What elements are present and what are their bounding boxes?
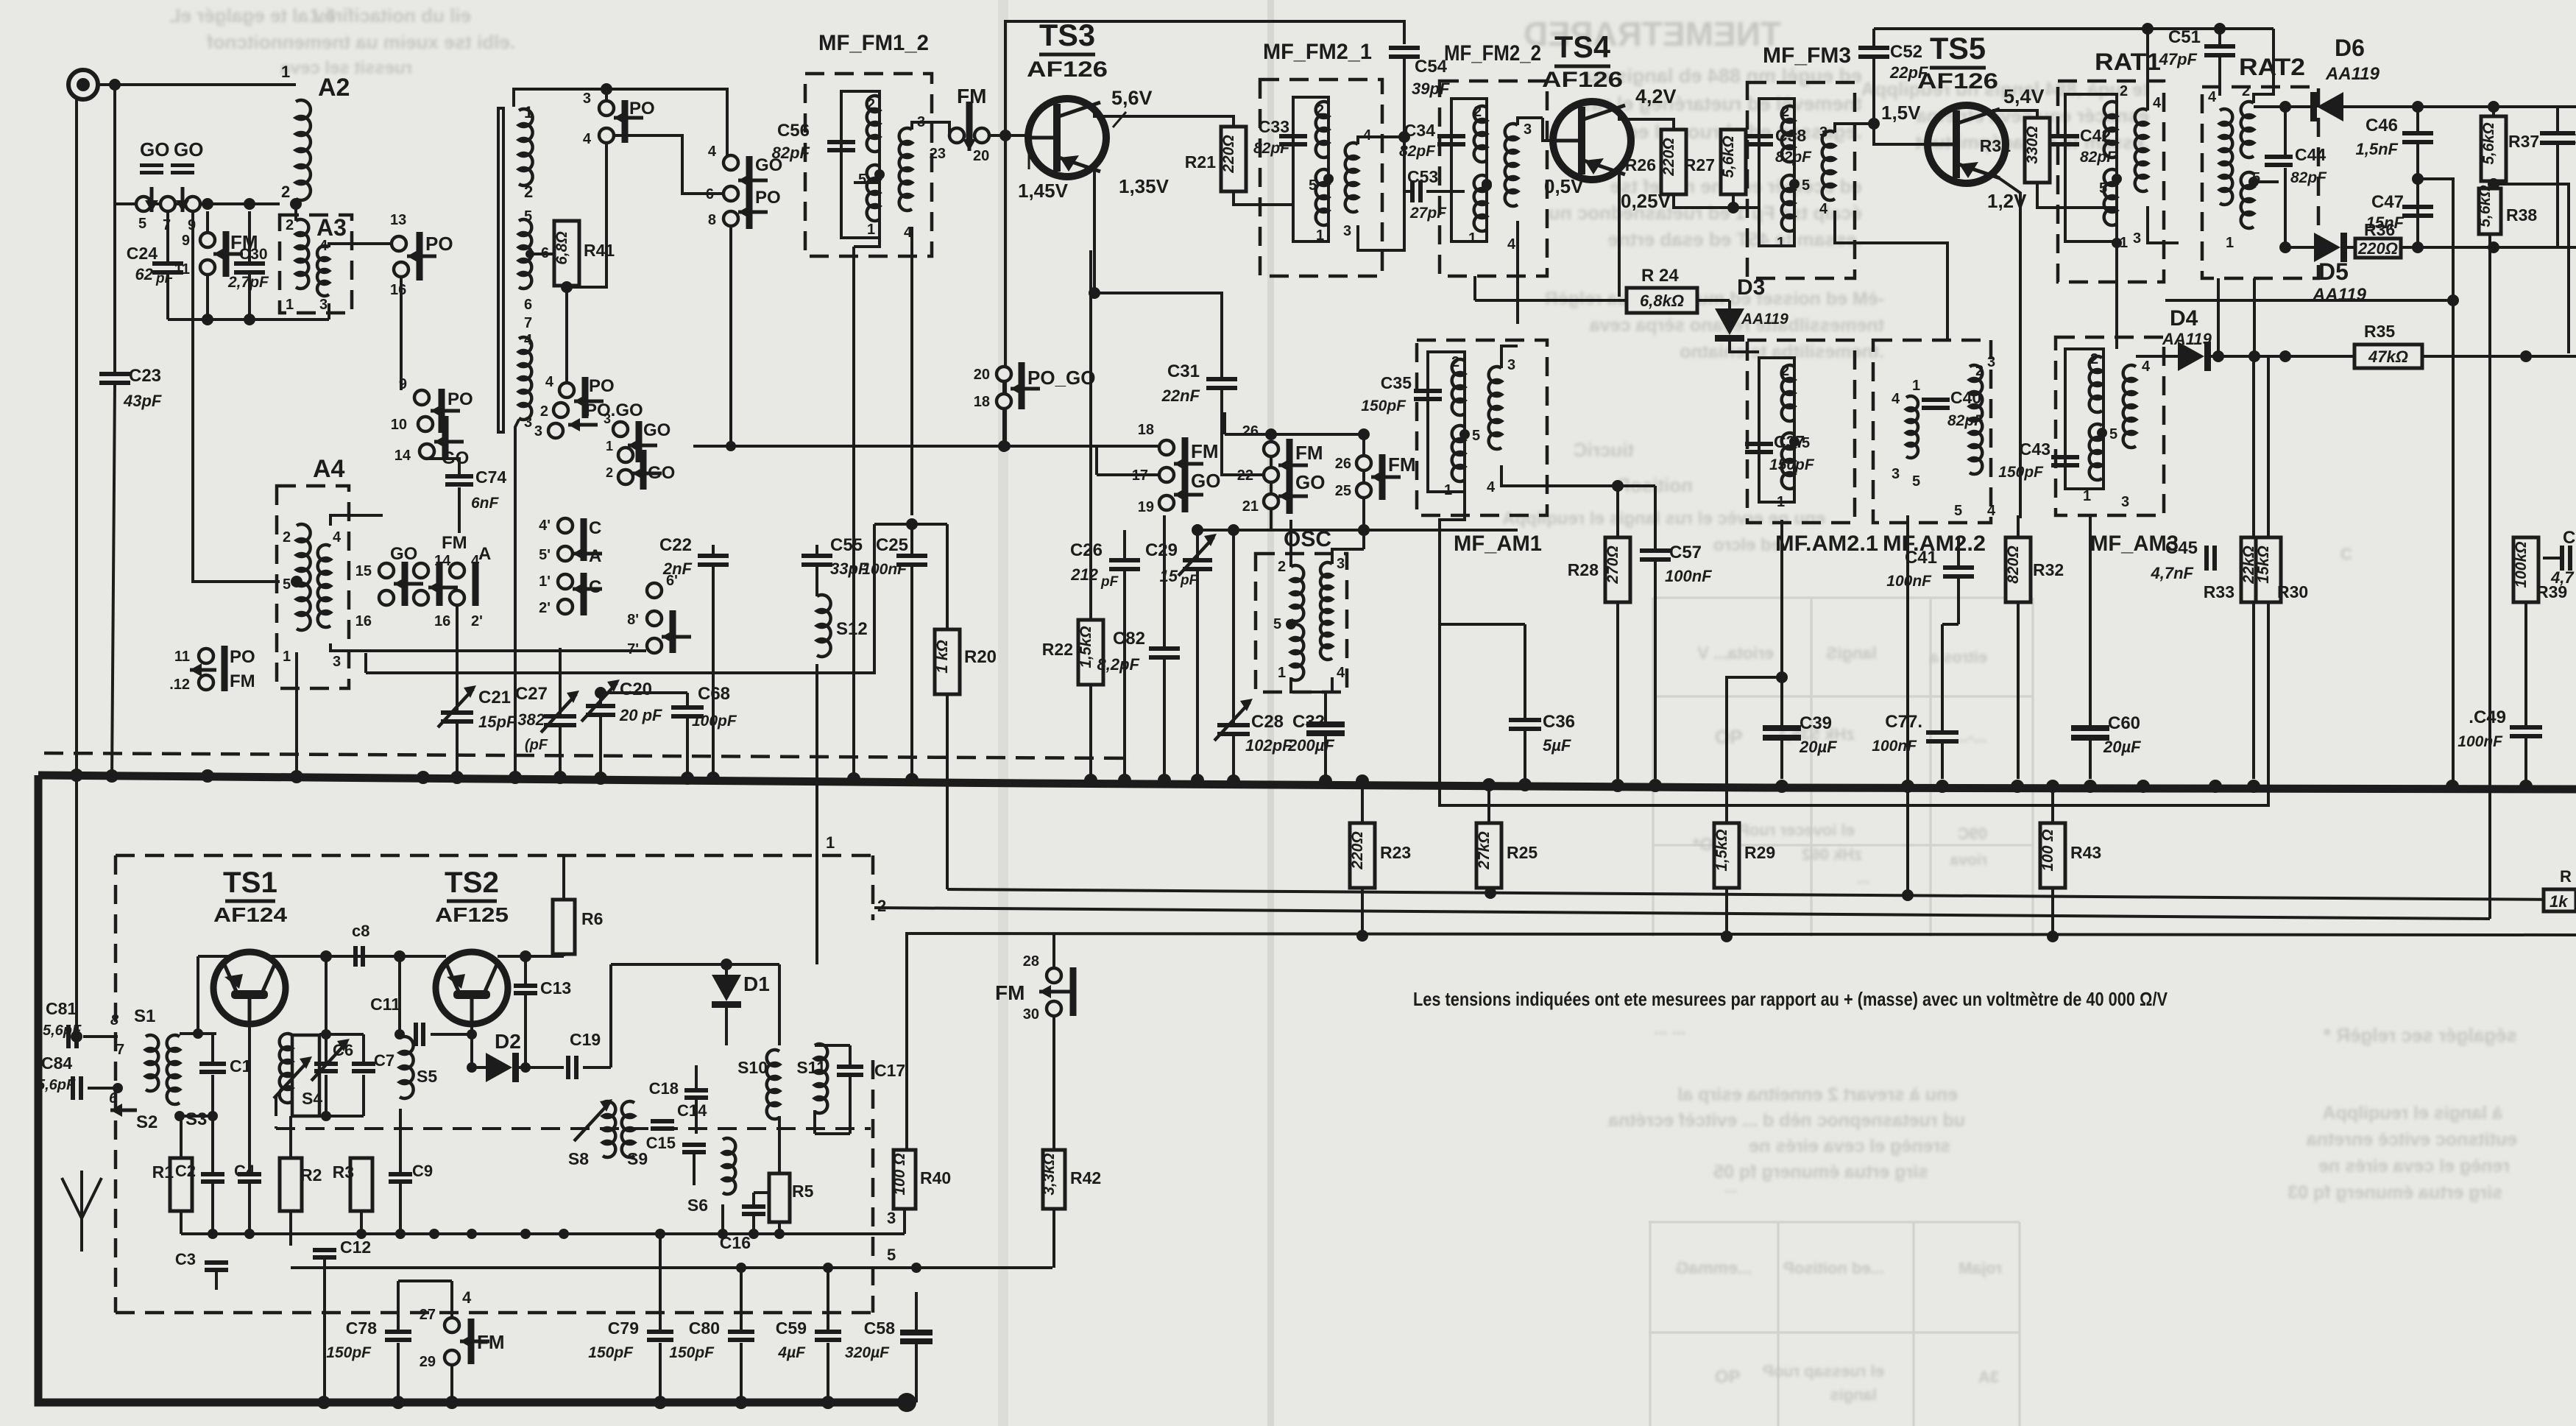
svg-text:20 pF: 20 pF — [619, 706, 662, 724]
svg-text:A3: A3 — [316, 214, 347, 241]
svg-text:3: 3 — [333, 654, 341, 670]
svg-text:26: 26 — [1335, 456, 1351, 472]
wire: TS4 collector — [1619, 110, 1674, 130]
svg-text:5: 5 — [1472, 428, 1480, 444]
antenna connector J1 — [68, 70, 98, 99]
resistor R43 — [2051, 788, 2054, 823]
svg-text:PO: PO — [447, 389, 473, 409]
capacitor C47 — [2412, 173, 2424, 185]
capacitor C32 (electrolytic) — [1306, 721, 1345, 727]
svg-text:...-...: ...-... — [1955, 727, 1987, 746]
wire: AM dashed row above bus — [44, 753, 1133, 758]
svg-text:C56: C56 — [777, 121, 810, 141]
svg-text:TS1: TS1 — [223, 866, 277, 899]
coil MF_AM3 secondary — [2123, 365, 2136, 448]
svg-text:2': 2' — [539, 600, 551, 616]
capacitor C57 — [1640, 548, 1671, 553]
wire — [75, 98, 78, 777]
svg-text:2: 2 — [606, 465, 613, 480]
wire — [514, 89, 727, 155]
coil MF_AM2_1 aux — [1906, 396, 1918, 458]
svg-text:GO: GO — [648, 463, 675, 483]
svg-text:el ruessap ruoP: el ruessap ruoP — [1763, 1362, 1884, 1380]
svg-text:C32: C32 — [1292, 712, 1325, 732]
svg-text:3: 3 — [1343, 223, 1351, 239]
svg-text:6,8kΩ: 6,8kΩ — [1640, 292, 1684, 310]
svg-text:C2: C2 — [175, 1162, 196, 1180]
svg-text:1,5nF: 1,5nF — [2356, 140, 2399, 158]
svg-text:3: 3 — [1819, 124, 1827, 141]
svg-text:27: 27 — [420, 1307, 436, 1323]
svg-text:R1: R1 — [152, 1162, 174, 1182]
svg-text:26: 26 — [1242, 423, 1259, 440]
variable capacitor C27 — [559, 648, 562, 714]
capacitor C3 — [205, 1260, 228, 1265]
svg-text:47pF: 47pF — [2159, 50, 2198, 68]
svg-text:6nF: 6nF — [471, 495, 500, 512]
wire — [98, 83, 296, 86]
svg-text:1,5kΩ: 1,5kΩ — [1078, 626, 1094, 668]
svg-text:0,5V: 0,5V — [1544, 175, 1584, 197]
wire: D1 top row — [611, 963, 779, 966]
svg-text:c8: c8 — [352, 922, 369, 940]
svg-text:S9: S9 — [627, 1149, 648, 1168]
svg-text:(pF: (pF — [525, 737, 548, 753]
svg-text:1: 1 — [283, 649, 291, 665]
svg-text:330Ω: 330Ω — [2024, 126, 2041, 163]
capacitor C44 — [2265, 155, 2293, 159]
svg-text:1: 1 — [1444, 482, 1452, 498]
svg-text:150pF: 150pF — [669, 1344, 715, 1361]
resistor R22 — [1089, 250, 1092, 620]
svg-text:R5: R5 — [792, 1182, 814, 1201]
svg-text:.elbi tse xueim ua tnemenn: .elbi tse xueim ua tnemennoitcnof — [207, 31, 515, 53]
svg-text:1: 1 — [1468, 230, 1476, 247]
svg-text:C21: C21 — [478, 688, 511, 707]
svg-text:FM: FM — [957, 85, 986, 107]
capacitor C56 — [827, 140, 855, 144]
wire — [1697, 299, 1730, 302]
svg-text:GO: GO — [643, 420, 670, 440]
svg-text:renèg el ceva eirés ne: renèg el ceva eirés ne — [2318, 1156, 2510, 1176]
svg-text:82pF: 82pF — [1253, 140, 1290, 157]
diode D5 — [2314, 233, 2340, 262]
capacitor C60 (electrolytic) — [2071, 725, 2109, 731]
svg-text:R3: R3 — [333, 1162, 354, 1182]
svg-text:PO: PO — [589, 376, 615, 396]
wire: RAT2 pin3 drop — [2217, 278, 2220, 356]
capacitor C4 — [238, 1172, 261, 1176]
svg-text:2: 2 — [540, 403, 548, 420]
svg-text:MF_FM2_2: MF_FM2_2 — [1444, 41, 1541, 66]
wire: tuner bottom caps — [397, 1281, 400, 1330]
wire: TS5 collector — [1994, 110, 2037, 119]
svg-text:100 Ω: 100 Ω — [891, 1153, 908, 1195]
svg-text:150pF: 150pF — [1361, 398, 1406, 414]
svg-text:C24: C24 — [127, 244, 158, 263]
svg-text:C17: C17 — [874, 1061, 905, 1080]
svg-text:1 kΩ: 1 kΩ — [934, 640, 951, 674]
svg-text:4: 4 — [1337, 665, 1345, 681]
svg-text:écalp tse Fμ 1 ed ruetasn: écalp tse Fμ 1 ed ruetasnednoc nu — [1549, 202, 1862, 224]
wire: tuning gang dashes — [275, 1097, 277, 1129]
svg-text:C: C — [589, 577, 601, 597]
svg-text:4: 4 — [524, 332, 533, 348]
svg-text:ud ruetasnepnoc nèb d ...: ud ruetasnepnoc nèb d ... evitcèf ecrétn… — [1607, 1110, 1965, 1131]
svg-text:7: 7 — [524, 315, 532, 331]
svg-text:C39: C39 — [1800, 713, 1832, 733]
svg-text:1': 1' — [539, 573, 551, 590]
svg-text:1: 1 — [1777, 235, 1785, 251]
svg-text:S3: S3 — [185, 1109, 207, 1129]
svg-text:C53: C53 — [1407, 167, 1438, 186]
variable coil (osc) arrow — [611, 1065, 696, 1066]
svg-text:C52: C52 — [1890, 42, 1922, 62]
svg-text:5,6kΩ: 5,6kΩ — [2477, 185, 2494, 227]
resistor R41 — [530, 253, 567, 255]
capacitor C78 — [385, 1330, 411, 1334]
svg-text:C43: C43 — [2020, 440, 2050, 459]
svg-text:S4: S4 — [302, 1089, 322, 1108]
capacitor C13 — [514, 984, 537, 988]
svg-text:C25: C25 — [876, 535, 908, 555]
svg-text:C13: C13 — [540, 978, 571, 998]
svg-text:GO: GO — [140, 138, 169, 160]
svg-text:OP: OP — [1715, 726, 1743, 748]
resistor R23 — [1361, 788, 1364, 823]
svg-text:270Ω: 270Ω — [1604, 546, 1621, 584]
svg-text:21: 21 — [1242, 498, 1259, 515]
capacitor C74 — [427, 459, 459, 474]
svg-text:1k: 1k — [2550, 892, 2569, 911]
svg-text:C: C — [2340, 545, 2352, 563]
capacitor C48 right edge — [2560, 546, 2564, 571]
wire: top wire to RAT2 — [1874, 27, 2274, 30]
variable capacitor C28 — [1217, 723, 1250, 727]
svg-text:100nF: 100nF — [862, 561, 907, 578]
svg-text:C9: C9 — [412, 1162, 433, 1180]
svg-text:3A: 3A — [1978, 1368, 1999, 1386]
svg-text:100kΩ: 100kΩ — [2513, 541, 2530, 587]
svg-text:C79: C79 — [608, 1319, 639, 1338]
svg-text:1,35V: 1,35V — [1119, 175, 1170, 197]
svg-text:TS4: TS4 — [1554, 29, 1611, 64]
wire: R37/R38 tap — [2494, 184, 2569, 353]
svg-text:C15: C15 — [646, 1134, 676, 1152]
resistor R1 — [170, 1158, 192, 1211]
svg-text:320µF: 320µF — [845, 1344, 890, 1361]
svg-text:C81: C81 — [46, 999, 77, 1018]
svg-text:eitros a: eitros a — [1929, 648, 1987, 666]
svg-text:...ed noitisoP: ...ed noitisoP — [1783, 1259, 1884, 1277]
wire — [1475, 299, 1627, 302]
svg-text:19: 19 — [1138, 499, 1154, 515]
svg-text:4: 4 — [1507, 236, 1516, 253]
svg-text:A: A — [589, 546, 601, 566]
svg-text:R22: R22 — [1042, 640, 1073, 659]
svg-text:C33: C33 — [1259, 117, 1289, 136]
svg-text:5: 5 — [2109, 426, 2117, 442]
wire: distribution row B — [874, 908, 2490, 919]
capacitor C79 — [647, 1330, 673, 1334]
svg-text:langis: langis — [1830, 1386, 1877, 1404]
svg-text:4: 4 — [1819, 201, 1828, 217]
svg-text:5: 5 — [1309, 177, 1317, 194]
wire: S4/C6/C7 rails — [319, 1033, 364, 1036]
svg-text:GO: GO — [174, 138, 203, 160]
capacitor c8 — [353, 946, 358, 967]
svg-text:3: 3 — [604, 412, 611, 426]
capacitor C34 — [1437, 134, 1465, 138]
wire: distribution row C — [907, 933, 2576, 1178]
capacitor C54 — [1389, 46, 1420, 50]
svg-text:3: 3 — [1507, 357, 1515, 373]
svg-text:4': 4' — [539, 518, 551, 534]
svg-text:5: 5 — [138, 216, 146, 232]
switch GO (trimmer pair) — [136, 197, 151, 211]
svg-text:20µF: 20µF — [1799, 738, 1837, 756]
svg-text:C47: C47 — [2371, 192, 2404, 212]
capacitor C46 — [2416, 107, 2419, 131]
svg-text:6: 6 — [109, 1090, 118, 1106]
svg-text:8: 8 — [708, 212, 716, 228]
capacitor C18 — [684, 1088, 708, 1093]
coil S9 — [622, 1101, 634, 1157]
svg-text:3: 3 — [887, 1209, 896, 1227]
svg-text:R43: R43 — [2070, 843, 2101, 862]
svg-text:14: 14 — [394, 448, 411, 464]
svg-text:riova: riova — [1950, 852, 1987, 869]
capacitor C49 — [2510, 725, 2542, 730]
svg-text:C27: C27 — [515, 684, 548, 704]
svg-text:20: 20 — [974, 367, 990, 383]
svg-text:ségalgér sec relgèR *: ségalgér sec relgèR * — [2323, 1024, 2517, 1046]
svg-text:15pF: 15pF — [478, 713, 517, 731]
switch PO/FM 11/12 — [199, 649, 213, 663]
capacitor C15 — [682, 1143, 706, 1147]
capacitor C23 — [113, 85, 116, 372]
svg-text:C51: C51 — [2168, 27, 2201, 47]
svg-text:100 Ω: 100 Ω — [2039, 829, 2056, 871]
svg-text:RAT1: RAT1 — [2095, 49, 2161, 75]
svg-text:16: 16 — [390, 282, 406, 298]
svg-text:PO: PO — [755, 188, 781, 208]
svg-text:4: 4 — [1487, 479, 1496, 495]
resistor R30 — [2256, 537, 2281, 602]
svg-text:C12: C12 — [340, 1238, 371, 1257]
svg-text:eutitsnoc evitcè enretna: eutitsnoc evitcè enretna — [2306, 1129, 2517, 1150]
svg-text:1,45V: 1,45V — [1018, 180, 1069, 202]
bleed-through: table 1 — [1653, 598, 2033, 936]
svg-text:PO.GO: PO.GO — [585, 400, 643, 420]
variable capacitor C21 — [456, 605, 459, 710]
svg-text:C19: C19 — [570, 1030, 601, 1049]
svg-text:C78: C78 — [346, 1319, 377, 1338]
svg-text:enu à srevart 2 enneitna: enu à srevart 2 enneitna esirp al — [1677, 1084, 1958, 1105]
capacitor C33 — [1279, 134, 1307, 138]
svg-text:C26: C26 — [1070, 540, 1103, 560]
svg-text:100nF: 100nF — [1886, 573, 1932, 590]
wire — [400, 277, 403, 390]
svg-text:R23: R23 — [1380, 843, 1411, 862]
svg-text:OP: OP — [1715, 1367, 1741, 1387]
svg-text:5: 5 — [283, 576, 291, 593]
svg-text:3: 3 — [1337, 556, 1345, 572]
svg-text:29: 29 — [420, 1354, 436, 1370]
resistor R37 — [2492, 107, 2495, 116]
svg-text:eriota... V: eriota... V — [1697, 643, 1774, 663]
svg-text:D5: D5 — [2318, 258, 2349, 285]
switch GO 15/16 — [379, 563, 394, 578]
svg-text:C6: C6 — [333, 1041, 353, 1059]
svg-text:el iovecer ruoP: el iovecer ruoP — [1738, 821, 1855, 839]
capacitor C19 — [566, 1056, 570, 1079]
switch contacts 6p/8p/7p — [647, 583, 662, 598]
wire: row 590 — [1225, 433, 1364, 436]
svg-text:15: 15 — [1160, 567, 1178, 585]
svg-text:4µF: 4µF — [777, 1344, 806, 1361]
svg-text:FM: FM — [477, 1331, 505, 1353]
switch PO/PO.GO cluster — [559, 383, 574, 398]
switch FM 28/30 (right) — [1047, 968, 1061, 983]
svg-text:220Ω: 220Ω — [1660, 138, 1677, 176]
resistor R38 — [2492, 181, 2495, 190]
switch FM 26/25 — [1356, 456, 1371, 470]
svg-text:R38: R38 — [2506, 205, 2537, 225]
switch PO_GO 20/18 — [997, 367, 1011, 381]
svg-text:.essam te 45T ed esab ert: .essam te 45T ed esab ertne — [1608, 228, 1862, 250]
coil (rod winding 4-3) — [519, 337, 531, 420]
svg-text:100nF: 100nF — [1665, 567, 1712, 585]
capacitor C55 — [802, 554, 832, 558]
svg-text:TS2: TS2 — [445, 866, 499, 899]
svg-text:5: 5 — [1912, 473, 1920, 490]
svg-text:R28: R28 — [1568, 560, 1599, 579]
capacitor C52 — [1858, 46, 1889, 50]
wire: TS4 emitter to AGC — [1618, 297, 1620, 300]
wire: TS3 emitter — [1094, 168, 1222, 377]
svg-text:sirg ertua émunerg fq 03: sirg ertua émunerg fq 03 — [2287, 1182, 2502, 1203]
wire: pin4 link row — [874, 523, 947, 526]
svg-text:rojaM: rojaM — [1958, 1259, 2002, 1277]
resistor R5 — [769, 1173, 790, 1222]
resistor R25 — [1487, 788, 1490, 823]
svg-text:100nF: 100nF — [1872, 738, 1917, 755]
svg-text:212: 212 — [1070, 565, 1098, 584]
svg-text:srenèg el ceva eirés ne: srenèg el ceva eirés ne — [1749, 1136, 1950, 1157]
svg-text:5: 5 — [1273, 616, 1281, 632]
wire — [329, 244, 392, 247]
svg-text:C82: C82 — [1113, 629, 1145, 649]
svg-text:R42: R42 — [1070, 1168, 1101, 1187]
svg-text:zHk 062: zHk 062 — [1802, 845, 1862, 864]
svg-text:150pF: 150pF — [588, 1344, 634, 1361]
svg-text:4: 4 — [1892, 391, 1900, 407]
svg-text:1: 1 — [826, 833, 835, 852]
svg-text:MF_FM2_1: MF_FM2_1 — [1263, 40, 1372, 64]
svg-text:C18: C18 — [649, 1079, 679, 1098]
svg-text:C22: C22 — [659, 535, 692, 555]
svg-text:R2: R2 — [300, 1165, 322, 1185]
svg-text:2: 2 — [2242, 83, 2250, 99]
coil MF_FM2_2 secondary — [1505, 124, 1518, 206]
svg-text:4: 4 — [333, 529, 342, 546]
svg-text:1,5V: 1,5V — [1881, 102, 1921, 124]
svg-text:C14: C14 — [677, 1101, 707, 1120]
wire — [989, 134, 1029, 137]
transformer A4 — [277, 486, 349, 688]
svg-text:AF126: AF126 — [1027, 57, 1108, 82]
capacitor C22 — [712, 545, 715, 554]
svg-text:5: 5 — [887, 1246, 896, 1264]
svg-text:C35: C35 — [1381, 373, 1412, 392]
svg-text:FM: FM — [1295, 442, 1323, 464]
svg-text:3: 3 — [524, 414, 532, 431]
svg-text:GO: GO — [1295, 471, 1325, 493]
svg-text:A4: A4 — [313, 455, 345, 483]
capacitor C53 — [1410, 180, 1415, 202]
svg-text:1: 1 — [2226, 235, 2234, 251]
antenna symbol — [80, 1171, 83, 1218]
svg-text:1: 1 — [1912, 378, 1920, 394]
svg-text:S11: S11 — [796, 1058, 826, 1077]
svg-text:A: A — [478, 544, 491, 564]
svg-text:16: 16 — [434, 613, 450, 629]
svg-text:82pF: 82pF — [772, 144, 810, 162]
capacitor C7 — [352, 1062, 375, 1066]
switch FM 14/16 — [414, 563, 428, 578]
svg-text:D2: D2 — [495, 1030, 521, 1053]
svg-text:R25: R25 — [1507, 843, 1538, 862]
svg-text:3: 3 — [2121, 494, 2129, 510]
svg-text:15: 15 — [355, 563, 372, 579]
wire: row 941 — [601, 691, 687, 694]
svg-text:2nF: 2nF — [662, 560, 693, 578]
svg-text:GO: GO — [1191, 470, 1220, 492]
wire — [295, 652, 298, 779]
svg-text:C11: C11 — [370, 995, 400, 1014]
svg-text:2,7pF: 2,7pF — [227, 274, 269, 291]
svg-text:5: 5 — [524, 208, 532, 225]
capacitor C43 — [2051, 455, 2079, 459]
svg-text:15kΩ: 15kΩ — [2255, 546, 2272, 583]
wire — [206, 211, 209, 233]
svg-text:1: 1 — [1777, 494, 1785, 510]
svg-text:4,7nF: 4,7nF — [2151, 564, 2194, 582]
capacitor C45 — [2204, 546, 2209, 571]
svg-text:09C: 09C — [1958, 825, 1987, 843]
svg-text:PO_GO: PO_GO — [1027, 367, 1095, 389]
svg-text:A2: A2 — [318, 74, 350, 102]
resistor R42 — [1043, 1150, 1065, 1209]
wire — [729, 226, 732, 446]
wire — [365, 651, 367, 673]
wire: top box outline — [1005, 21, 1404, 446]
svg-text:C7: C7 — [374, 1051, 394, 1070]
svg-text:sirg ertua émunerg fq 05: sirg ertua émunerg fq 05 — [1713, 1162, 1928, 1182]
svg-text:220Ω: 220Ω — [1349, 831, 1366, 869]
svg-text:C57: C57 — [1669, 543, 1702, 562]
svg-text:47kΩ: 47kΩ — [2368, 347, 2408, 366]
svg-text:3: 3 — [1892, 466, 1900, 482]
switch C-A-C cluster — [558, 518, 573, 533]
svg-text:16: 16 — [355, 613, 372, 629]
svg-text:6,8Ω: 6,8Ω — [553, 231, 570, 265]
switch FM/GO 18/17/19 — [693, 445, 1159, 448]
svg-text:C80: C80 — [689, 1319, 720, 1338]
capacitor C26 — [1109, 558, 1140, 562]
svg-text:820Ω: 820Ω — [2005, 546, 2022, 583]
